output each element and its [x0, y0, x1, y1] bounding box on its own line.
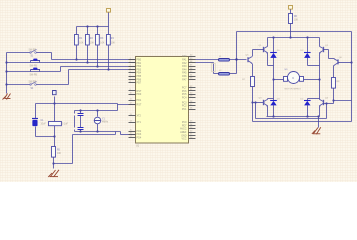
junction base left	[251, 101, 253, 103]
junction node-L1	[235, 58, 237, 60]
wire left bus vertical	[6, 53, 8, 94]
wire row1 left	[7, 52, 30, 54]
IC U1 body	[136, 57, 189, 144]
wire main column mid	[54, 126, 56, 147]
svg-text:MOTOR SERVO: MOTOR SERVO	[285, 89, 302, 91]
svg-text:PC4: PC4	[182, 96, 187, 99]
wire column drops to resistors	[77, 27, 109, 35]
svg-text:PC1: PC1	[182, 108, 187, 111]
capacitor C1 electrolytic	[32, 119, 46, 127]
push button S2	[30, 59, 41, 71]
junction motor right	[318, 78, 320, 80]
wire row4 right	[37, 84, 69, 86]
junction rail-D2	[306, 36, 308, 38]
wire crosswire A horizontal	[256, 118, 327, 120]
output filter section	[196, 32, 352, 122]
wire Q1 base link	[253, 50, 265, 57]
reset and crystal section	[36, 97, 136, 169]
svg-text:M: M	[292, 76, 294, 80]
wire cap box left edge	[74, 111, 76, 114]
svg-text:10K: 10K	[111, 43, 116, 45]
wire Q2 emitter	[319, 53, 321, 66]
resistor R8	[332, 78, 341, 89]
wire elco bottom to column	[36, 136, 55, 138]
IC U1 pin numbers	[130, 55, 194, 139]
wire right output column	[319, 66, 321, 99]
junction bottom rail D4	[306, 115, 308, 117]
wire bottom-right join	[308, 98, 320, 100]
junction reset-column	[53, 102, 55, 104]
transistor Q4	[319, 97, 328, 106]
IC U1 left pins	[129, 60, 136, 138]
power port VCC3	[289, 6, 293, 14]
motor M1	[284, 69, 304, 90]
ground GND3	[312, 127, 321, 134]
wire box bottom return	[73, 134, 116, 136]
junction xtal-bot-caps	[79, 130, 81, 132]
left input section	[7, 53, 136, 94]
junction col4-line4	[107, 68, 109, 70]
resistor R7	[242, 77, 254, 87]
diode D2	[301, 38, 311, 66]
wire crystal bottom rail	[75, 131, 121, 133]
svg-text:XT2: XT2	[137, 115, 142, 118]
svg-text:RST: RST	[137, 103, 142, 106]
wire Q3 emitter	[267, 106, 269, 117]
capacitor C3 plates	[78, 128, 84, 130]
svg-text:PD0: PD0	[137, 93, 142, 96]
junction rail-feed	[289, 36, 291, 38]
wire rail left drop	[267, 38, 269, 47]
resistor R2	[86, 35, 95, 46]
wire motor left lead	[274, 79, 284, 81]
wire bottom-left join	[268, 98, 274, 100]
diode D3	[270, 98, 280, 116]
wire rail right drop	[319, 38, 321, 47]
junction rail-D1	[272, 36, 274, 38]
wire left mid join	[268, 65, 274, 67]
junction bottom rail D3	[272, 115, 274, 117]
push button S3	[30, 68, 41, 77]
svg-text:XT1: XT1	[137, 121, 142, 124]
wire Q1 emitter	[267, 53, 269, 66]
wire row3 step up	[60, 67, 62, 72]
junction col1-line1	[75, 58, 77, 60]
wire into IC pin RST	[118, 104, 136, 106]
junction bus-row2	[5, 61, 7, 63]
transistor Q1	[259, 45, 268, 54]
svg-text:10K: 10K	[100, 43, 105, 45]
diode D1	[270, 38, 280, 66]
inductor L1	[219, 56, 230, 61]
wire row1 right	[37, 52, 52, 54]
junction tail-branch	[52, 162, 54, 164]
svg-text:PA7: PA7	[182, 78, 187, 81]
wire right edge vertical	[351, 32, 353, 122]
resistor R1	[75, 35, 84, 46]
ground GND1	[3, 94, 11, 100]
svg-text:PD1: PD1	[137, 99, 142, 102]
IC U1 pin labels	[137, 55, 188, 140]
junction xtal-top-caps	[79, 109, 81, 111]
svg-text:PD4: PD4	[137, 137, 142, 140]
junction rail-col2	[86, 25, 88, 27]
wire R6 to rail	[290, 24, 292, 38]
junction right edge base	[350, 61, 352, 63]
wire top horizontal	[237, 31, 352, 33]
junction col2-line2	[86, 61, 88, 63]
inductor L2	[219, 70, 230, 75]
wire ground drop	[318, 117, 320, 128]
wire step down to xtal top	[117, 104, 119, 111]
resistor R3	[96, 35, 105, 46]
transistor Q5 driver	[246, 54, 253, 64]
wire Q3 base line	[253, 102, 265, 104]
svg-text:4MHz: 4MHz	[102, 122, 109, 124]
wire right mid join	[308, 65, 320, 67]
wire pin to L1	[196, 59, 219, 61]
wire node vertical	[236, 32, 238, 74]
svg-text:10K: 10K	[294, 20, 299, 22]
svg-text:PB7: PB7	[137, 82, 142, 85]
wire Q2 base link	[323, 50, 335, 59]
wire L2 to node	[230, 73, 237, 75]
wire cap column	[80, 111, 82, 114]
crystal Y1	[94, 117, 109, 124]
svg-text:SW-PB: SW-PB	[30, 66, 38, 68]
diode D4	[301, 98, 311, 116]
wire bridge top rail	[268, 37, 320, 39]
wire Q4 collector stub	[319, 99, 321, 100]
power port VCC2	[53, 91, 57, 95]
wire right edge link	[334, 100, 352, 102]
capacitor C4 series	[49, 122, 69, 126]
resistor R6	[289, 14, 299, 24]
wire elco branch down	[35, 104, 37, 119]
wire crystal stubs	[97, 111, 99, 117]
junction base right	[332, 99, 334, 101]
wire crystal top rail	[75, 110, 118, 112]
wire row4 step up	[68, 70, 70, 85]
junction xtal-top-crystal	[96, 109, 98, 111]
resistor R4	[107, 35, 116, 46]
svg-text:SW-PB: SW-PB	[30, 75, 38, 77]
net label box	[212, 64, 216, 72]
wire bus line1 to IC	[52, 59, 136, 61]
wire row4 left	[7, 84, 30, 86]
wire pin to L2 path	[196, 62, 214, 64]
svg-text:SW-PB: SW-PB	[29, 49, 37, 51]
switch S4	[29, 82, 37, 90]
svg-text:10K: 10K	[90, 43, 95, 45]
ground GND2	[48, 170, 59, 177]
wire left output column	[273, 66, 275, 99]
svg-text:SW-PB: SW-PB	[29, 82, 37, 84]
IC U1 right pins	[189, 57, 196, 139]
wire motor right lead	[304, 79, 320, 81]
wire Q5 emitter column	[252, 64, 254, 77]
wire bus line3 to IC	[61, 66, 136, 68]
wire Q6 emitter column	[333, 66, 335, 78]
wire R7 tail	[252, 87, 254, 122]
wire L1 to driver base	[230, 59, 247, 61]
transistor Q3	[259, 97, 268, 106]
wire crosswire A left vertical	[255, 103, 257, 119]
wire row2 line to IC	[7, 62, 136, 64]
junction motor left	[272, 78, 274, 80]
wire Q4 emitter	[319, 106, 321, 117]
wire R8 tail	[333, 89, 335, 104]
transistor Q2	[319, 45, 328, 54]
wire crosswire A right vertical	[326, 104, 328, 119]
wire Q6 base to right edge	[338, 62, 352, 64]
junction rail-col3	[96, 25, 98, 27]
junction col3-line3	[96, 65, 98, 67]
wire bus line4 to IC	[69, 69, 136, 71]
wire pullup rail	[77, 26, 109, 28]
wire Q4 base line	[323, 103, 334, 105]
wire reset long horizontal	[36, 103, 118, 105]
switch S1	[29, 49, 37, 57]
junction bottom rail ground tap	[317, 115, 319, 117]
resistor R5	[52, 147, 62, 158]
power port VCC1	[107, 9, 111, 27]
wire main column lower	[53, 158, 55, 169]
junction bus-row3	[5, 70, 7, 72]
wire main column upper	[54, 97, 56, 122]
junction crosswire A left	[254, 101, 256, 103]
wire row3 left	[7, 71, 61, 73]
svg-text:VCC: VCC	[181, 138, 186, 141]
wire Q3 collector stub	[267, 99, 269, 100]
junction xtal-bot-crystal	[96, 130, 98, 132]
junction crosswire A right	[325, 102, 327, 104]
wire step to IC xtal2 pin	[120, 132, 122, 135]
junction elco-column	[53, 135, 55, 137]
wire column tails to bus lines	[77, 46, 109, 70]
wire row1 step down	[51, 53, 53, 60]
wire bridge bottom rail	[267, 116, 320, 118]
svg-text:10K: 10K	[57, 153, 62, 155]
svg-text:10K: 10K	[79, 43, 84, 45]
capacitor C2 plates	[78, 114, 84, 116]
wire crosswire B horizontal	[253, 121, 352, 123]
transistor Q6 driver	[333, 57, 342, 66]
junction bus-row4	[5, 83, 7, 85]
svg-text:0.1uF: 0.1uF	[62, 124, 68, 126]
svg-text:10uF: 10uF	[41, 123, 47, 125]
